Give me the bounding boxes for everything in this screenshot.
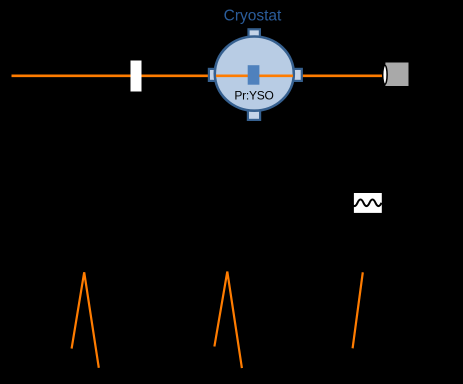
crystal Pr:YSO [248, 65, 260, 85]
cryostat bottom tab [248, 109, 260, 120]
pulse 1 [72, 272, 99, 368]
RF source box [354, 193, 382, 213]
cryostat body [215, 37, 294, 111]
detector lens [383, 65, 387, 84]
RF source sine wave [352, 200, 382, 207]
pulse 2 [214, 272, 242, 369]
cryostat right tab [294, 69, 302, 81]
wire beam through cryostat [216, 74, 293, 77]
wire laser beam [12, 74, 386, 77]
pulse 3 ramp [353, 272, 363, 348]
cryostat left tab [209, 69, 217, 81]
cryostat top tab [249, 29, 260, 39]
shutter (white rectangle in beam path) [131, 61, 142, 92]
svg-text:Cryostat: Cryostat [224, 8, 282, 25]
svg-text:Pr:YSO: Pr:YSO [234, 89, 273, 103]
detector body [385, 63, 408, 87]
